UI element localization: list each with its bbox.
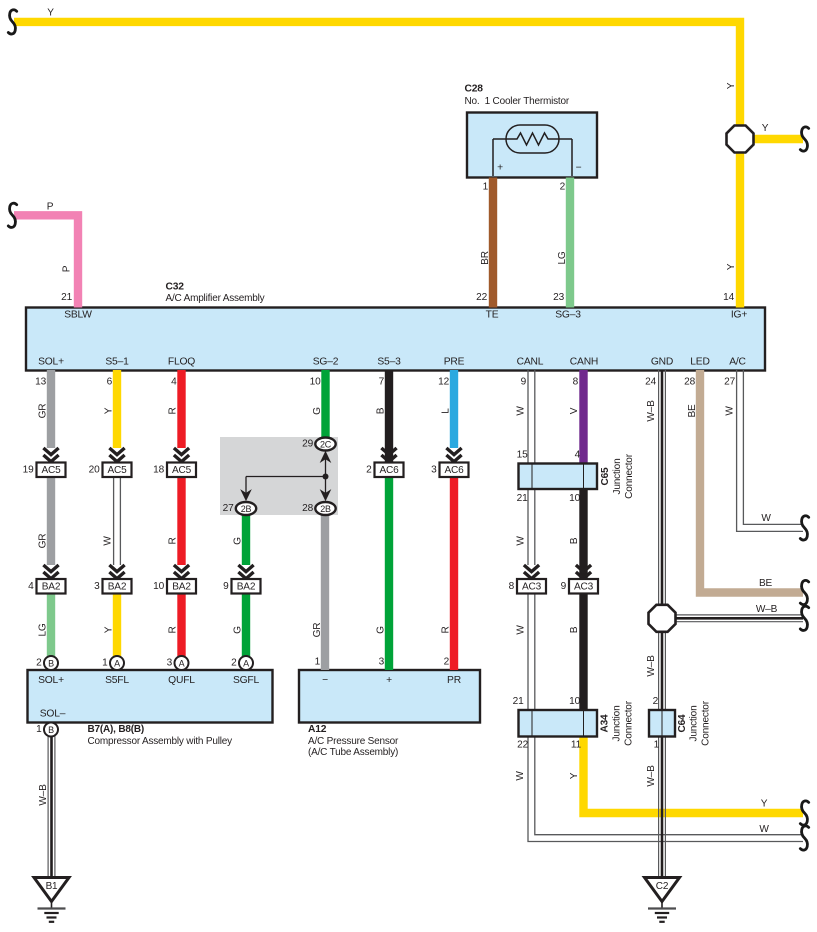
connector AC5 pin18 — [174, 448, 189, 455]
svg-text:BA2: BA2 — [237, 581, 256, 592]
wire V CANH to C65 — [579, 370, 587, 470]
svg-text:2: 2 — [36, 658, 42, 669]
break symbol right W A/C — [800, 516, 808, 540]
thermistor element symbol — [506, 125, 559, 153]
svg-text:−: − — [322, 675, 328, 686]
svg-text:B: B — [376, 407, 387, 414]
svg-text:B: B — [569, 626, 580, 633]
svg-text:13: 13 — [35, 377, 46, 388]
ground B1 — [34, 878, 69, 902]
svg-text:23: 23 — [553, 292, 564, 303]
svg-text:10: 10 — [569, 493, 580, 504]
svg-text:22: 22 — [517, 740, 528, 751]
svg-text:7: 7 — [379, 377, 385, 388]
svg-text:9: 9 — [223, 581, 229, 592]
svg-text:22: 22 — [476, 292, 487, 303]
svg-text:V: V — [569, 407, 580, 414]
break symbol right Y A34 — [800, 801, 808, 825]
svg-text:GR: GR — [38, 534, 49, 549]
svg-text:Connector: Connector — [701, 700, 712, 746]
svg-text:GR: GR — [38, 404, 49, 419]
wire Y splice branch to break — [752, 135, 803, 143]
shield node 2C pin29 — [315, 438, 335, 451]
connector AC6 pin3 — [446, 448, 461, 455]
svg-text:P: P — [47, 202, 54, 213]
svg-text:3: 3 — [94, 581, 100, 592]
shield wire horizontal — [246, 476, 326, 478]
svg-text:21: 21 — [513, 696, 524, 707]
svg-text:GND: GND — [651, 357, 673, 368]
svg-text:S5–1: S5–1 — [105, 357, 129, 368]
svg-text:2: 2 — [560, 182, 566, 193]
connector BA2 pin4 — [43, 565, 58, 572]
wire W CANL down and right to break — [527, 370, 529, 464]
svg-text:2B: 2B — [320, 504, 331, 514]
compressor assembly box B7/B8 — [28, 670, 273, 723]
svg-text:Junction: Junction — [689, 706, 700, 742]
svg-text:21: 21 — [61, 292, 72, 303]
svg-text:−: − — [576, 163, 582, 174]
svg-text:8: 8 — [509, 581, 515, 592]
svg-text:SG–2: SG–2 — [313, 357, 339, 368]
connector BA2 pin10 — [174, 565, 189, 572]
svg-text:15: 15 — [517, 450, 528, 461]
wire W A/C down and right to break — [737, 370, 803, 531]
svg-text:G: G — [233, 626, 244, 634]
connector AC3 pin9 — [576, 565, 591, 572]
wire LG BA2 to compressor SOL+ — [47, 594, 55, 658]
svg-text:GR: GR — [312, 623, 323, 638]
svg-text:27: 27 — [724, 377, 735, 388]
svg-text:4: 4 — [575, 450, 581, 461]
wire B C65 to A34 — [579, 482, 587, 720]
wire W-B splice branch to break — [674, 614, 803, 616]
compressor pin circle A3 — [175, 656, 189, 670]
wire G BA2 to compressor SGFL — [242, 594, 250, 658]
svg-text:W: W — [725, 406, 736, 416]
svg-text:BA2: BA2 — [172, 581, 191, 592]
svg-text:1: 1 — [654, 740, 660, 751]
svg-text:S5–3: S5–3 — [377, 357, 401, 368]
shield wire left drop — [245, 477, 247, 497]
svg-text:W–B: W–B — [756, 604, 778, 615]
svg-text:BR: BR — [480, 251, 491, 265]
wire B S5-3 to AC6 — [385, 370, 393, 463]
svg-text:No. 1 Cooler Thermistor: No. 1 Cooler Thermistor — [465, 96, 570, 107]
svg-text:R: R — [168, 407, 179, 414]
svg-text:1: 1 — [315, 657, 321, 668]
svg-text:9: 9 — [521, 377, 527, 388]
splice octagon on W-B ground — [649, 605, 676, 632]
svg-text:AC5: AC5 — [172, 465, 192, 476]
connector AC3 pin8 — [524, 565, 539, 572]
wire R FLOQ to AC5 — [177, 370, 185, 448]
svg-text:4: 4 — [171, 377, 177, 388]
svg-text:A12: A12 — [308, 724, 327, 735]
connector BA2 pin3 — [109, 565, 124, 572]
svg-text:R: R — [168, 626, 179, 633]
svg-text:1: 1 — [102, 658, 108, 669]
svg-text:AC3: AC3 — [574, 581, 594, 592]
junction connector A34 — [519, 710, 598, 737]
svg-text:+: + — [386, 675, 392, 686]
wire G shield 2B to BA2 — [242, 515, 250, 565]
svg-text:LED: LED — [690, 357, 709, 368]
wire GR AC5 to BA2 — [47, 477, 55, 565]
svg-text:1: 1 — [483, 182, 489, 193]
svg-text:11: 11 — [571, 740, 582, 751]
svg-text:BA2: BA2 — [108, 581, 127, 592]
svg-text:6: 6 — [107, 377, 113, 388]
svg-text:C32: C32 — [166, 282, 185, 293]
compressor pin circle B1 below — [44, 723, 58, 737]
svg-text:BE: BE — [759, 578, 773, 589]
svg-text:W–B: W–B — [646, 765, 657, 787]
svg-text:19: 19 — [23, 464, 34, 475]
svg-text:G: G — [376, 626, 387, 634]
wire R AC6 to A12 pin2 — [450, 477, 458, 670]
svg-text:3: 3 — [167, 658, 173, 669]
shield arrow up into 2C — [325, 455, 327, 477]
break symbol left Y — [8, 10, 16, 34]
splice octagon on IG+ yellow — [727, 126, 754, 153]
svg-text:Y: Y — [104, 626, 115, 633]
connector AC5 pin20 — [109, 448, 124, 455]
svg-text:2C: 2C — [320, 440, 332, 450]
svg-text:Connector: Connector — [624, 700, 635, 746]
svg-text:G: G — [233, 537, 244, 545]
svg-text:G: G — [312, 407, 323, 415]
wire L PRE to AC6 — [450, 370, 458, 448]
shield arrow down into left 2B — [240, 489, 252, 501]
svg-text:AC6: AC6 — [379, 465, 399, 476]
break symbol right W-B — [800, 606, 808, 630]
svg-text:A/C: A/C — [729, 357, 746, 368]
svg-text:W: W — [516, 625, 527, 635]
C28 cooler thermistor box — [467, 113, 597, 178]
svg-text:9: 9 — [561, 581, 567, 592]
break symbol right BE — [800, 580, 808, 604]
svg-text:W: W — [515, 771, 526, 781]
svg-text:B: B — [48, 725, 54, 735]
svg-text:2: 2 — [366, 464, 372, 475]
connector AC6 pin2 — [381, 448, 396, 455]
wire Y battery feed top — [14, 22, 740, 308]
svg-text:B7(A), B8(B): B7(A), B8(B) — [88, 724, 145, 735]
svg-text:AC5: AC5 — [41, 465, 61, 476]
svg-text:PRE: PRE — [444, 357, 465, 368]
svg-text:AC3: AC3 — [522, 581, 542, 592]
svg-text:LG: LG — [38, 623, 49, 636]
wire BR thermistor pin1 to TE — [489, 178, 497, 308]
ground C2 — [645, 878, 680, 902]
svg-text:B1: B1 — [46, 881, 58, 892]
wire W-B GND to ground C2 — [658, 370, 660, 878]
svg-text:(A/C Tube Assembly): (A/C Tube Assembly) — [308, 747, 398, 758]
svg-text:CANH: CANH — [570, 357, 598, 368]
svg-text:28: 28 — [684, 377, 695, 388]
svg-text:Y: Y — [104, 407, 115, 414]
svg-text:8: 8 — [573, 377, 579, 388]
svg-text:+: + — [497, 163, 503, 174]
svg-text:SBLW: SBLW — [64, 310, 92, 321]
shield node 2B pin27 — [236, 502, 256, 515]
wire W AC5 to BA2 — [113, 477, 115, 565]
svg-text:CANL: CANL — [517, 357, 544, 368]
svg-text:C2: C2 — [656, 881, 669, 892]
svg-text:10: 10 — [569, 696, 580, 707]
break symbol right Y splice — [800, 127, 808, 151]
svg-text:LG: LG — [557, 251, 568, 264]
svg-text:14: 14 — [723, 292, 734, 303]
svg-text:Y: Y — [761, 799, 768, 810]
break symbol left P — [8, 203, 16, 227]
svg-text:W–B: W–B — [38, 784, 49, 806]
svg-text:SOL+: SOL+ — [38, 357, 64, 368]
svg-text:W–B: W–B — [646, 655, 657, 677]
svg-text:A/C Amplifier Assembly: A/C Amplifier Assembly — [166, 293, 265, 304]
svg-text:W: W — [761, 513, 771, 524]
svg-text:W: W — [103, 536, 114, 546]
wire G AC6 to A12 pin3 — [385, 477, 393, 670]
svg-text:B: B — [48, 659, 54, 669]
svg-text:SOL+: SOL+ — [38, 675, 64, 686]
break symbol right W CANL — [800, 826, 808, 850]
wire GR shield 2B to A12 pin1 — [321, 515, 329, 670]
A/C pressure sensor A12 box — [299, 670, 480, 723]
svg-text:A: A — [243, 659, 249, 669]
svg-text:Junction: Junction — [612, 706, 623, 742]
svg-text:R: R — [168, 537, 179, 544]
svg-text:PR: PR — [447, 675, 461, 686]
junction connector C64 — [649, 710, 675, 737]
connector BA2 pin9 — [238, 565, 253, 572]
svg-text:R: R — [441, 626, 452, 633]
svg-text:IG+: IG+ — [731, 310, 747, 321]
svg-text:21: 21 — [517, 493, 528, 504]
wire P to SBLW — [14, 215, 78, 307]
svg-text:P: P — [62, 265, 73, 272]
svg-text:QUFL: QUFL — [168, 675, 195, 686]
svg-text:C64: C64 — [677, 714, 688, 733]
svg-text:4: 4 — [28, 581, 34, 592]
svg-text:SGFL: SGFL — [233, 675, 260, 686]
svg-text:2: 2 — [231, 658, 237, 669]
svg-text:Connector: Connector — [624, 453, 635, 499]
svg-text:A34: A34 — [600, 714, 611, 733]
svg-text:28: 28 — [302, 503, 313, 514]
connector AC5 pin19 — [43, 448, 58, 455]
thermistor lead wires — [492, 139, 494, 176]
svg-text:C65: C65 — [600, 467, 611, 486]
junction connector C65 — [519, 464, 598, 490]
svg-text:Y: Y — [726, 263, 737, 270]
svg-text:W: W — [516, 536, 527, 546]
svg-text:Y: Y — [47, 8, 54, 19]
svg-text:S5FL: S5FL — [105, 675, 129, 686]
shield arrow down into right 2B — [320, 489, 332, 501]
svg-text:Y: Y — [569, 772, 580, 779]
svg-text:3: 3 — [379, 657, 385, 668]
svg-text:2: 2 — [444, 657, 450, 668]
svg-text:Y: Y — [726, 82, 737, 89]
svg-text:BA2: BA2 — [42, 581, 61, 592]
svg-text:Junction: Junction — [612, 459, 623, 495]
svg-text:20: 20 — [89, 464, 100, 475]
wire Y BA2 to compressor S5FL — [113, 594, 121, 658]
compressor pin circle A1 — [110, 656, 124, 670]
svg-text:W: W — [759, 824, 769, 835]
svg-text:FLOQ: FLOQ — [168, 357, 195, 368]
svg-text:W: W — [516, 406, 527, 416]
svg-text:AC6: AC6 — [444, 465, 464, 476]
svg-text:AC5: AC5 — [107, 465, 127, 476]
shield wire right drop — [325, 477, 327, 497]
svg-text:10: 10 — [310, 377, 321, 388]
wire G SG-2 to shield 2C — [321, 370, 329, 438]
wire R BA2 to compressor QUFL — [177, 594, 185, 658]
svg-text:SOL–: SOL– — [40, 709, 66, 720]
svg-text:10: 10 — [153, 581, 164, 592]
svg-text:18: 18 — [153, 464, 164, 475]
svg-text:12: 12 — [438, 377, 449, 388]
wire R AC5 to BA2 — [177, 477, 185, 565]
svg-text:2B: 2B — [241, 504, 252, 514]
compressor pin circle A2 — [239, 656, 253, 670]
svg-text:3: 3 — [431, 464, 437, 475]
svg-text:BE: BE — [687, 404, 698, 418]
svg-text:L: L — [441, 408, 452, 414]
svg-text:Compressor Assembly with Pulle: Compressor Assembly with Pulley — [88, 736, 233, 747]
svg-text:W–B: W–B — [646, 400, 657, 422]
wire LG thermistor pin2 to SG-3 — [566, 178, 574, 308]
svg-text:TE: TE — [486, 310, 499, 321]
svg-text:27: 27 — [223, 503, 234, 514]
A/C amplifier assembly C32 box — [26, 308, 765, 371]
wire Y S5-1 to AC5 — [113, 370, 121, 448]
svg-text:Y: Y — [762, 123, 769, 134]
svg-text:SG–3: SG–3 — [555, 310, 581, 321]
svg-text:24: 24 — [645, 377, 656, 388]
wire Y A34 to break right — [584, 723, 804, 813]
svg-text:1: 1 — [36, 724, 42, 735]
compressor pin circle B2 — [44, 656, 58, 670]
wire BE LED down and right to break — [700, 370, 803, 593]
shielded cable shading — [220, 437, 338, 515]
svg-text:29: 29 — [302, 439, 313, 450]
svg-text:B: B — [569, 537, 580, 544]
svg-text:A/C Pressure Sensor: A/C Pressure Sensor — [308, 736, 399, 747]
shield junction dot — [323, 474, 329, 480]
svg-text:2: 2 — [653, 696, 659, 707]
svg-text:A: A — [114, 659, 120, 669]
shield node 2B pin28 — [315, 502, 335, 515]
wire GR SOL+ to AC5 — [47, 370, 55, 448]
wire W-B compressor to ground B1 — [47, 736, 49, 878]
svg-text:C28: C28 — [465, 84, 484, 95]
svg-text:A: A — [179, 659, 185, 669]
